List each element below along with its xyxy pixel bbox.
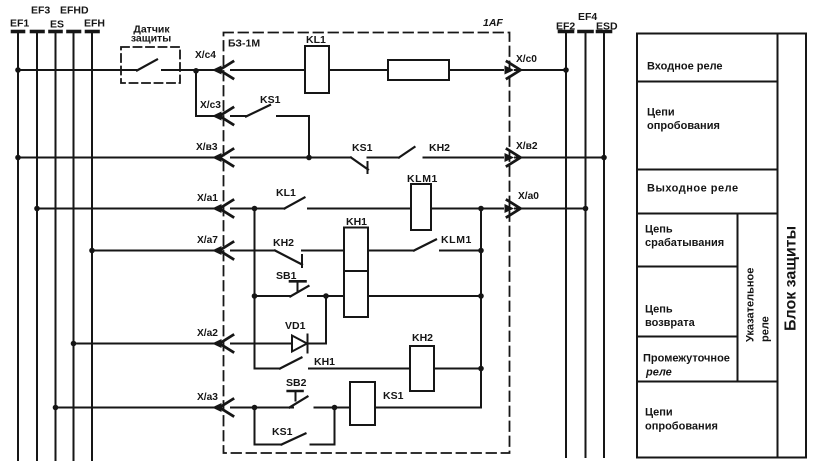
junction rail3 ESD bbox=[601, 155, 607, 161]
terminal EF1 bbox=[13, 32, 24, 461]
wire KH1 lower to right bus bbox=[368, 295, 481, 297]
connector X/в2 bbox=[505, 149, 521, 166]
svg-text:KS1: KS1 bbox=[260, 94, 281, 106]
junction KH1 row right bus bbox=[478, 366, 484, 372]
svg-text:KH2: KH2 bbox=[273, 237, 294, 249]
protection block dashed boundary 1AF bbox=[224, 33, 510, 454]
svg-text:KH2: KH2 bbox=[412, 332, 433, 344]
terminal ESD bbox=[598, 32, 611, 458]
svg-text:1AF: 1AF bbox=[483, 17, 503, 29]
junction ES rail7 bbox=[53, 405, 59, 411]
svg-text:KS1: KS1 bbox=[272, 426, 293, 438]
terminal ES bbox=[50, 32, 61, 461]
svg-text:Цепь: Цепь bbox=[645, 224, 673, 236]
svg-text:KL1: KL1 bbox=[276, 187, 296, 199]
svg-text:реле: реле bbox=[645, 367, 672, 379]
wire rail4 connector to contact KL1 bbox=[231, 208, 285, 210]
svg-text:ES: ES bbox=[50, 19, 64, 31]
svg-text:SB2: SB2 bbox=[286, 377, 307, 389]
svg-text:KS1: KS1 bbox=[383, 390, 404, 402]
wire resistor to connector X/c0 bbox=[449, 69, 503, 71]
wire rail6 connector to diode VD1 bbox=[231, 343, 292, 345]
wire rail6 EFHD to connector X/а2 bbox=[74, 343, 219, 345]
left bus vertical bbox=[254, 209, 256, 369]
svg-text:ESD: ESD bbox=[596, 21, 618, 33]
svg-text:X/в2: X/в2 bbox=[516, 141, 538, 152]
wire VD1 up to SB1 row bbox=[307, 296, 326, 344]
connector X/c4 bbox=[212, 62, 233, 79]
connector X/c3 bbox=[212, 108, 233, 125]
junction EF3 rail4 bbox=[34, 206, 40, 212]
junction EFHD rail6 bbox=[71, 341, 77, 347]
junction SB1 row right bus bbox=[478, 293, 484, 299]
svg-text:EF4: EF4 bbox=[578, 11, 597, 23]
svg-text:Цепь: Цепь bbox=[645, 304, 673, 316]
svg-text:возврата: возврата bbox=[645, 317, 696, 329]
relay coil KL1 bbox=[305, 46, 329, 93]
junction rail4 EF4 bbox=[583, 206, 589, 212]
svg-text:Входное реле: Входное реле bbox=[647, 61, 723, 73]
svg-text:X/а7: X/а7 bbox=[197, 235, 218, 246]
svg-text:KLM1: KLM1 bbox=[441, 234, 472, 246]
resistor bbox=[388, 60, 449, 80]
contact KLM1 rail5 bbox=[414, 240, 436, 251]
wire rail3 to connector X/в2 bbox=[424, 157, 504, 159]
contact KL1 rail4 bbox=[285, 198, 305, 209]
svg-text:опробования: опробования bbox=[645, 421, 718, 433]
svg-text:X/c0: X/c0 bbox=[516, 54, 537, 65]
right bus vertical bbox=[480, 209, 482, 408]
svg-text:EFHD: EFHD bbox=[60, 5, 89, 17]
connector X/а7 bbox=[212, 242, 233, 259]
sensor switch contact bbox=[121, 60, 180, 71]
relay coil KLM1 bbox=[411, 184, 431, 230]
svg-text:KLM1: KLM1 bbox=[407, 173, 438, 185]
wire coil KS1 to right bus corner bbox=[375, 407, 481, 409]
svg-text:реле: реле bbox=[760, 316, 772, 342]
terminal EFHD bbox=[68, 32, 80, 461]
svg-text:X/а1: X/а1 bbox=[197, 193, 218, 204]
svg-text:SB1: SB1 bbox=[276, 270, 297, 282]
relay coil KH1 two windings bbox=[344, 228, 368, 318]
svg-text:X/c4: X/c4 bbox=[195, 50, 216, 61]
svg-text:X/c3: X/c3 bbox=[200, 100, 221, 111]
contact KH2 rail3 bbox=[399, 147, 415, 158]
wire SB1 row left bus to button bbox=[255, 295, 292, 297]
connector X/а0 bbox=[505, 200, 521, 217]
wire rail5 EFH to connector X/а7 bbox=[92, 250, 218, 252]
svg-text:X/а0: X/а0 bbox=[518, 191, 539, 202]
wire rail7 ES to connector X/а3 bbox=[56, 407, 219, 409]
svg-text:защиты: защиты bbox=[131, 33, 171, 45]
svg-text:EFH: EFH bbox=[84, 18, 105, 30]
contact KH2 rail5 break bbox=[275, 251, 344, 268]
svg-text:KL1: KL1 bbox=[306, 34, 326, 46]
wire X/а0 to EF4 bbox=[515, 208, 586, 210]
svg-text:KS1: KS1 bbox=[352, 142, 373, 154]
wire rail1 sensor to connector X/c4 bbox=[180, 69, 218, 71]
wire coil KH2 to right bus bbox=[434, 368, 481, 370]
connector X/а3 bbox=[212, 399, 233, 416]
wire branch down to rail2 bbox=[196, 70, 218, 116]
svg-text:X/в3: X/в3 bbox=[196, 142, 218, 153]
wire rail3 connector to KS1 bbox=[231, 157, 351, 159]
svg-text:опробования: опробования bbox=[647, 120, 720, 132]
wire X/в2 to ESD bbox=[515, 157, 604, 159]
contact KH1 bbox=[280, 358, 302, 369]
svg-text:X/а3: X/а3 bbox=[197, 392, 218, 403]
junction EF1 rail3 bbox=[15, 155, 21, 161]
wire rail4 to coil KLM1 bbox=[308, 208, 411, 210]
wire KL1 to resistor bbox=[329, 69, 388, 71]
wire rail4 KLM1 to connector X/а0 bbox=[431, 208, 503, 210]
wire rail5 KH1 to contact KLM1 bbox=[368, 250, 414, 252]
connector X/а2 bbox=[212, 335, 233, 352]
junction rail1 EF2 bbox=[563, 67, 569, 73]
junction SB1 row left bus bbox=[252, 293, 258, 299]
button SB2 bbox=[288, 391, 308, 408]
relay coil KH2 bbox=[410, 346, 434, 391]
svg-text:EF1: EF1 bbox=[10, 18, 29, 30]
svg-text:VD1: VD1 bbox=[285, 320, 306, 332]
junction rail4 left bus bbox=[252, 206, 258, 212]
table column Блок защиты left edge bbox=[777, 34, 779, 458]
wire contact KH1 to coil KH2 bbox=[309, 368, 410, 370]
table row line 1 bbox=[637, 81, 778, 83]
svg-text:срабатывания: срабатывания bbox=[645, 237, 724, 249]
wire rail7 connector to SB2 bbox=[231, 407, 293, 409]
contact KS1 bypass bbox=[282, 434, 306, 445]
wire SB2 to coil KS1 bbox=[315, 407, 351, 409]
terminal EFH bbox=[87, 32, 99, 461]
relay coil KS1 bbox=[350, 382, 375, 425]
wire SB1 to KH1 lower winding bbox=[308, 295, 344, 297]
svg-text:EF2: EF2 bbox=[556, 21, 575, 33]
wire rail5 connector to contact KH2 bbox=[231, 250, 275, 252]
sensor dashed box Датчик защиты bbox=[121, 47, 180, 83]
svg-text:Промежуточное: Промежуточное bbox=[643, 353, 730, 365]
svg-text:Блок защиты: Блок защиты bbox=[783, 226, 800, 331]
junction SB1 row VD1 branch bbox=[323, 293, 329, 299]
junction rail1 branch bbox=[193, 68, 199, 74]
connector X/c0 bbox=[505, 62, 521, 79]
junction rail7 bypass bbox=[332, 405, 338, 411]
wire bypass row KS1 contact bbox=[255, 408, 282, 445]
svg-text:X/а2: X/а2 bbox=[197, 328, 218, 339]
table row line 2 bbox=[637, 169, 778, 171]
contact KS1 rail2 bbox=[246, 105, 270, 117]
wire rail2 to drop at x309 bbox=[277, 116, 309, 158]
contact KS1 rail3 break bbox=[351, 158, 399, 174]
svg-text:KH2: KH2 bbox=[429, 142, 450, 154]
table row line 3 bbox=[637, 213, 778, 215]
svg-text:Выходное реле: Выходное реле bbox=[647, 183, 739, 195]
junction rail4 right bus bbox=[478, 206, 484, 212]
connector X/в3 bbox=[212, 149, 233, 166]
button SB1 bbox=[290, 281, 309, 296]
wire rail1 inside block to coil KL1 bbox=[231, 69, 305, 71]
terminal EF3 bbox=[32, 32, 44, 461]
wire KH1 contact row from left bus bbox=[255, 368, 281, 370]
table outer frame bbox=[637, 34, 806, 458]
table column Указательное реле left edge bbox=[737, 214, 739, 382]
junction EFH rail5 bbox=[89, 248, 95, 254]
svg-text:Цепи: Цепи bbox=[647, 107, 675, 119]
wire rail2 connector to contact KS1 bbox=[231, 115, 246, 117]
terminal EF4 bbox=[579, 32, 592, 458]
wire X/c0 to EF2 bbox=[515, 69, 566, 71]
wire bypass back up to rail7 bbox=[311, 408, 335, 445]
wire rail1 left EF1 to sensor bbox=[18, 69, 121, 71]
diode VD1 bbox=[292, 335, 308, 353]
junction rail7 left bus bbox=[252, 405, 258, 411]
table row line 5 bbox=[637, 336, 738, 338]
svg-text:EF3: EF3 bbox=[31, 5, 50, 17]
svg-text:БЗ-1М: БЗ-1М bbox=[228, 38, 260, 50]
svg-text:Указательное: Указательное bbox=[745, 268, 757, 342]
wire rail4 EF3 to connector X/а1 bbox=[37, 208, 218, 210]
wire rail3 left EF1 to connector X/в3 bbox=[18, 157, 218, 159]
terminal EF2 bbox=[560, 32, 573, 458]
svg-text:Цепи: Цепи bbox=[645, 407, 673, 419]
connector X/а1 bbox=[212, 200, 233, 217]
wire rail5 to right bus bbox=[440, 250, 481, 252]
junction rail3 x309 bbox=[306, 155, 312, 161]
svg-text:KH1: KH1 bbox=[314, 356, 335, 368]
table row line 4 bbox=[637, 266, 738, 268]
junction EF1 rail1 bbox=[15, 67, 21, 73]
table row line 6 bbox=[637, 381, 778, 383]
svg-text:KH1: KH1 bbox=[346, 216, 367, 228]
junction rail5 right bus bbox=[478, 248, 484, 254]
